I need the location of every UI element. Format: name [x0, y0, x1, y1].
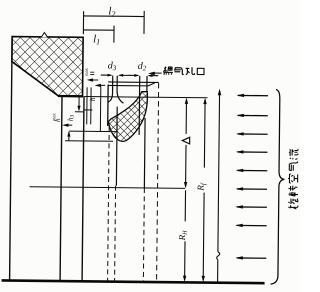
svg-text:h3: h3: [66, 114, 76, 121]
svg-text:max: max: [84, 67, 89, 76]
svg-text:d3: d3: [108, 61, 117, 73]
svg-text:Rf: Rf: [196, 182, 208, 192]
svg-text:l1: l1: [93, 33, 100, 46]
svg-text:max: max: [51, 112, 56, 121]
svg-text:h: h: [88, 97, 97, 101]
svg-text:RH: RH: [177, 230, 189, 242]
svg-text:d2: d2: [138, 61, 147, 73]
svg-text:l2: l2: [108, 6, 115, 19]
